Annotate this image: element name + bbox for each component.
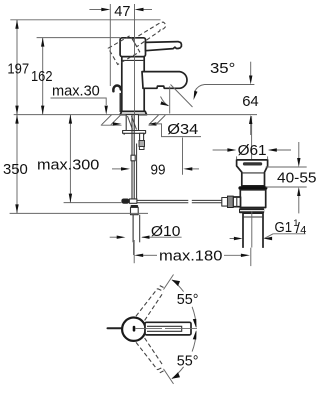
spout with aerator notch [142, 72, 187, 89]
dashed head outline (lever raised) [108, 36, 139, 65]
dim O10 [110, 236, 182, 238]
faucet body cylinder [122, 57, 144, 112]
svg-text:162: 162 [31, 68, 53, 85]
svg-text:Ø10: Ø10 [151, 223, 181, 240]
tailpipe centerline [251, 212, 253, 248]
hose edge behind rod [136, 144, 138, 200]
lever handle (front) [146, 42, 182, 51]
svg-text:197: 197 [7, 61, 29, 78]
top view: centerline in circle [136, 328, 146, 330]
upper 55deg arc & arrows [164, 275, 174, 290]
deck bottom line right [149, 124, 157, 126]
top view: lever bar [145, 322, 191, 335]
collar (dark band) [239, 208, 264, 213]
side port [233, 197, 241, 207]
dim max.180 [134, 240, 241, 263]
svg-text:Ø61: Ø61 [238, 142, 267, 159]
pop-up linkage clamp knob [121, 199, 129, 204]
top view: body circle [122, 318, 145, 341]
tailpipe [243, 213, 263, 248]
svg-text:35°: 35° [210, 60, 235, 77]
dim G1 1/4 [230, 234, 306, 239]
dim 40-55 [266, 142, 307, 213]
pop-up rod below deck [131, 115, 133, 199]
connector cylinder [222, 198, 228, 207]
flange joint line [242, 172, 265, 174]
drain flange top [237, 160, 268, 186]
mounting washer and nut [123, 131, 146, 134]
supply hose stub (right) [140, 133, 144, 140]
deck bottom line left [101, 124, 122, 126]
dim 162 [37, 38, 120, 115]
dim max.300 [64, 115, 122, 203]
lower 55deg arc & arrows [164, 369, 174, 384]
hose end fitting [131, 205, 139, 207]
threaded shank through deck [126, 115, 138, 131]
svg-text:4: 4 [300, 225, 306, 237]
pop-up rod above deck [119, 93, 121, 112]
dim 47 lines [89, 4, 152, 115]
svg-text:64: 64 [242, 93, 259, 110]
svg-text:55°: 55° [177, 353, 199, 370]
base flange [120, 111, 146, 114]
dim O61 [213, 150, 291, 160]
dashed lever rotated up 55deg [136, 286, 164, 321]
dim 47 arrows [101, 8, 110, 11]
gland nut (gray) [228, 196, 234, 207]
dashed lever rotated down 55deg [136, 338, 164, 373]
svg-text:99: 99 [151, 162, 166, 179]
dim 197 [10, 20, 160, 115]
hose below (O10) [132, 215, 134, 243]
centerline extension below pipe [250, 248, 252, 266]
top view: spout stub [108, 327, 123, 329]
O-ring (black band) [238, 186, 267, 190]
body joint ring line [122, 59, 144, 61]
top view: lever centerline [136, 328, 198, 330]
svg-text:55°: 55° [177, 291, 199, 308]
dashed lever outline (raised 35deg) [133, 22, 166, 47]
svg-text:max.180: max.180 [159, 248, 222, 265]
top view: center mark [133, 326, 136, 332]
svg-text:G1: G1 [275, 219, 293, 236]
35deg annotation [161, 85, 205, 114]
dim 99 [112, 138, 199, 175]
drain centerline upper [251, 116, 253, 161]
dim max.30 leader [51, 98, 107, 105]
svg-text:40-55: 40-55 [277, 170, 317, 187]
rod end line [133, 242, 135, 255]
svg-text:350: 350 [3, 161, 28, 178]
deck hatching left [102, 115, 121, 125]
shank thread lines [128, 116, 137, 130]
faucet head (cartridge housing) [120, 38, 145, 57]
horizontal linkage rod [137, 200, 222, 202]
svg-text:max.300: max.300 [37, 157, 99, 174]
svg-text:max.30: max.30 [52, 83, 100, 100]
dim 350 [10, 115, 148, 214]
rod coupler [131, 155, 135, 161]
top view: lever inner slot [147, 326, 182, 331]
pop-up rod knob (hook) [113, 86, 120, 92]
dim 64 [205, 62, 255, 135]
countertop deck line [14, 114, 257, 116]
tailpipe joint line [243, 216, 263, 218]
svg-text:Ø34: Ø34 [167, 121, 198, 138]
dim O34 [113, 122, 122, 125]
linkage cylinder [129, 199, 137, 203]
drain body [240, 190, 265, 208]
deck hatching right [149, 115, 165, 125]
svg-text:47: 47 [114, 3, 130, 20]
plug lid (dark) [243, 162, 262, 165]
